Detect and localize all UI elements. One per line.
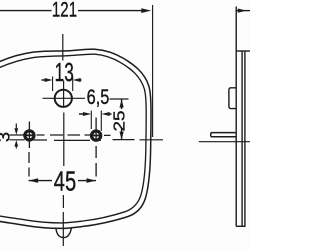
- svg-text:13: 13: [55, 57, 74, 87]
- 13 extension lines: [53, 77, 73, 92]
- 121 dimension line: [0, 10, 147, 12]
- side view inner verticals: [242, 51, 245, 226]
- 25 dimension vertical: [121, 99, 123, 140]
- 45 dimension: [29, 180, 96, 182]
- 6,5 dimension: [79, 113, 112, 115]
- 13 arrow left: [45, 78, 53, 82]
- top center mark: [62, 34, 64, 61]
- 121 extension line: [152, 5, 154, 137]
- big hole vertical centerline: [63, 81, 65, 167]
- bottom tab: [56, 228, 72, 238]
- 3 arrow up: [14, 140, 18, 146]
- small hole left horizontal crossline: [24, 134, 35, 136]
- small hole left ∅6.5: [25, 131, 34, 140]
- side view bottom edge: [236, 225, 245, 227]
- lamp horizontal centerline: [10, 139, 164, 142]
- 25 arrow down: [120, 132, 124, 140]
- 6,5 arrow left: [83, 112, 91, 116]
- 45 arrow right: [87, 178, 97, 183]
- 121 arrowhead right: [141, 8, 151, 13]
- small hole right ∅6.5: [92, 131, 101, 140]
- svg-text:3: 3: [0, 132, 13, 142]
- side view centerline: [199, 141, 250, 143]
- svg-text:25: 25: [110, 110, 128, 131]
- bottom center line: [62, 212, 64, 246]
- 25 arrow up: [120, 99, 124, 107]
- front view outer contour: [0, 49, 151, 228]
- side view top edge: [236, 50, 250, 52]
- front view inner contour: [0, 54, 146, 223]
- 3 dimension: [15, 124, 17, 149]
- side view flange: [211, 133, 237, 137]
- 3 arrow down: [14, 128, 18, 134]
- big hole horizontal centerline: [43, 97, 86, 99]
- side view clip: [229, 88, 236, 109]
- small hole right vertical centerline: [95, 118, 97, 177]
- 6,5 arrow right: [101, 112, 109, 116]
- svg-text:6,5: 6,5: [87, 85, 110, 108]
- small hole right horizontal crossline: [91, 135, 102, 137]
- 45 arrow left: [29, 178, 38, 183]
- 13 dimension: [42, 79, 82, 81]
- 13 arrow right: [73, 78, 81, 82]
- side view top arrowhead: [238, 9, 247, 13]
- bottom dashed line: [62, 195, 64, 208]
- hole centerline dashed: [10, 134, 111, 136]
- 6,5 extension lines: [91, 111, 101, 132]
- 25 top tick: [110, 98, 129, 100]
- svg-text:121: 121: [52, 0, 77, 21]
- svg-text:45: 45: [54, 166, 76, 197]
- big hole ∅13: [55, 90, 72, 107]
- side view top dimension: [236, 10, 250, 12]
- small hole left vertical centerline: [28, 122, 30, 177]
- side view left edge / extension: [235, 7, 237, 227]
